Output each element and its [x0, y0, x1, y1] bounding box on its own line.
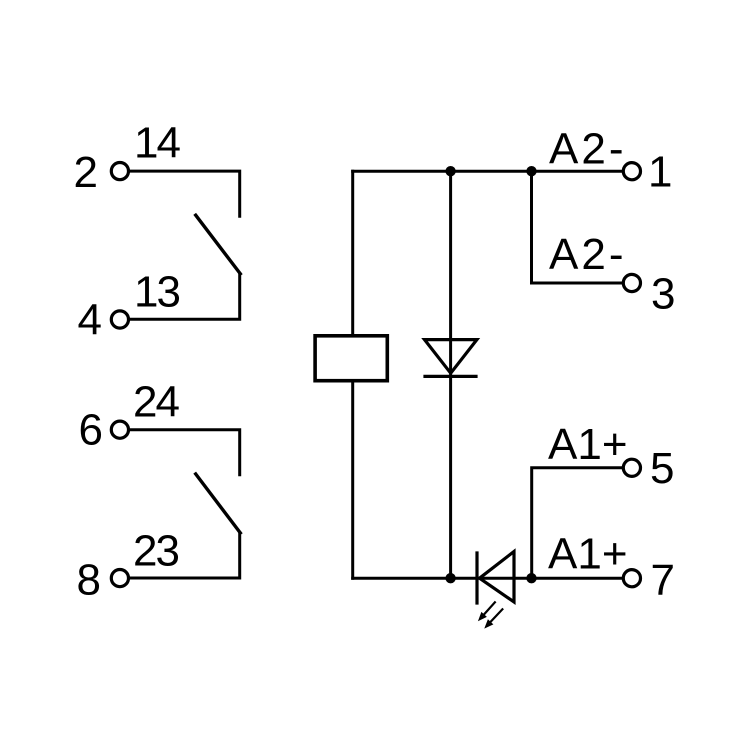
- junction dot bottom left: [445, 573, 455, 583]
- svg-text:7: 7: [651, 556, 675, 605]
- switch blade contact 24-23: [196, 474, 241, 533]
- wire 14 (terminal 2 to fixed contact): [130, 171, 240, 216]
- wire A1 bottom rail: [353, 577, 623, 580]
- wire A1 branch from terminal 5: [532, 468, 623, 578]
- junction dot top left: [445, 166, 455, 176]
- wire A2 top rail: [353, 170, 623, 173]
- LED light arrow 2: [485, 609, 502, 627]
- wire 13 (blade to terminal 4): [130, 274, 240, 320]
- svg-text:5: 5: [650, 444, 674, 493]
- terminal 5 circle: [623, 459, 640, 476]
- wire 24 (terminal 6 to fixed contact): [130, 430, 240, 475]
- terminal 2 circle: [111, 163, 128, 180]
- svg-text:13: 13: [134, 268, 179, 317]
- svg-text:1: 1: [648, 148, 672, 197]
- svg-text:2: 2: [74, 148, 98, 197]
- terminal 1 circle: [623, 163, 640, 180]
- wire 23 (blade to terminal 8): [130, 533, 240, 578]
- svg-text:A1+: A1+: [548, 420, 628, 469]
- LED light arrow 1: [479, 602, 495, 620]
- junction dot bottom right: [526, 573, 536, 583]
- wire A2 branch to terminal 3: [532, 171, 624, 283]
- svg-text:14: 14: [134, 119, 180, 168]
- svg-text:3: 3: [651, 269, 675, 318]
- svg-text:23: 23: [133, 527, 178, 576]
- terminal 7 circle: [623, 570, 640, 587]
- terminal 3 circle: [623, 274, 640, 291]
- wire coil branch lower: [351, 381, 354, 579]
- terminal 4 circle: [111, 311, 128, 328]
- terminal 8 circle: [111, 570, 128, 587]
- junction dot top right: [526, 166, 536, 176]
- svg-text:A1+: A1+: [548, 529, 628, 578]
- svg-text:24: 24: [133, 378, 179, 427]
- LED D2: [477, 552, 514, 604]
- terminal 6 circle: [111, 421, 128, 438]
- svg-text:A2-: A2-: [549, 124, 626, 173]
- relay coil K1: [315, 336, 387, 381]
- switch blade contact 14-13: [196, 215, 241, 274]
- wire diode branch: [449, 171, 452, 578]
- wire coil branch upper: [351, 171, 354, 336]
- svg-text:6: 6: [79, 406, 103, 455]
- svg-text:A2-: A2-: [549, 230, 626, 279]
- svg-text:8: 8: [77, 556, 101, 605]
- freewheeling diode D1: [425, 340, 477, 377]
- svg-text:4: 4: [78, 296, 102, 345]
